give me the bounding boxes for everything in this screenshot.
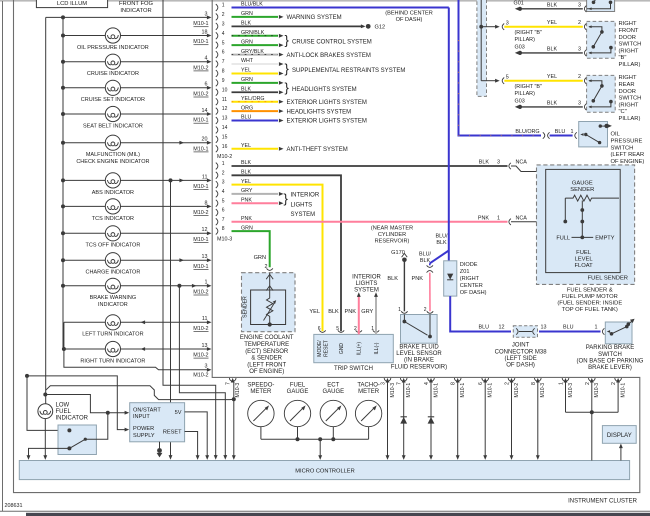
svg-text:FUEL PUMP MOTOR: FUEL PUMP MOTOR <box>562 294 618 300</box>
svg-text:6: 6 <box>205 82 208 88</box>
svg-text:G03: G03 <box>515 45 525 51</box>
svg-text:1: 1 <box>559 382 565 385</box>
svg-text:SWITCH: SWITCH <box>619 96 642 102</box>
cluster boundary wire pin 2 M10-2 <box>505 378 520 460</box>
svg-text:M10-2: M10-2 <box>217 154 232 160</box>
svg-text:1: 1 <box>222 3 225 9</box>
indicator lamp: RIGHT TURN <box>62 341 212 364</box>
label: oil pressure switch <box>611 132 645 165</box>
svg-text:M10-3: M10-3 <box>390 383 396 398</box>
svg-text:PNK: PNK <box>411 276 423 282</box>
svg-text:15: 15 <box>222 134 228 140</box>
svg-text:G12: G12 <box>375 25 386 31</box>
wire: indicator lamp supply rail <box>62 17 64 349</box>
wire: lamp supply to M10-1 pin 3 <box>46 11 212 27</box>
svg-text:M10-3: M10-3 <box>217 237 232 243</box>
brake fluid level sensor pin 1 cup <box>398 307 407 314</box>
indicator lamp: MALFUNCTION (MIL) CHECK ENGINE INDICATOR <box>61 135 212 165</box>
cluster boundary wire pin 3 M10-3 <box>381 378 396 460</box>
svg-text:M10-3: M10-3 <box>594 383 600 398</box>
indicator lamp: BRAKE WARNING INDICATOR <box>61 278 212 308</box>
svg-text:BRAKE FLUID: BRAKE FLUID <box>399 345 439 351</box>
page top border <box>0 0 650 2</box>
svg-text:7: 7 <box>222 59 225 65</box>
svg-text:FLOAT: FLOAT <box>574 263 593 269</box>
svg-text:SWITCH: SWITCH <box>598 352 622 358</box>
svg-text:OIL: OIL <box>611 132 621 138</box>
connector M10-2 pin 1 wire BLU/BLK <box>216 2 449 11</box>
svg-text:M10-1: M10-1 <box>193 21 208 27</box>
svg-text:13: 13 <box>202 254 208 260</box>
connector M10-3 pin 6 <box>216 208 225 216</box>
wire: BLK ground to top door switch <box>522 3 586 13</box>
svg-text:OF ENGINE): OF ENGINE) <box>249 369 284 375</box>
svg-text:1: 1 <box>205 280 208 286</box>
cluster boundary wire pin 4 M10-1 <box>424 378 439 460</box>
svg-text:5V: 5V <box>175 410 182 416</box>
svg-text:1: 1 <box>497 216 500 222</box>
oil pressure switch <box>579 122 612 147</box>
svg-text:CHARGE INDICATOR: CHARGE INDICATOR <box>85 270 140 276</box>
svg-text:(BEHIND CENTER: (BEHIND CENTER <box>385 11 433 17</box>
indicator lamp: CHARGE INDICATOR <box>61 253 212 276</box>
cluster boundary wire pin 6 M10-1 <box>478 378 493 460</box>
svg-text:(ECT) SENSOR: (ECT) SENSOR <box>245 349 289 355</box>
svg-text:POWER: POWER <box>133 426 154 432</box>
svg-text:EXTERIOR LIGHTS SYSTEM: EXTERIOR LIGHTS SYSTEM <box>287 100 367 106</box>
svg-text:OF DASH): OF DASH) <box>506 363 535 369</box>
svg-text:BLK: BLK <box>387 276 398 282</box>
svg-text:CYLINDER: CYLINDER <box>378 232 406 238</box>
svg-text:RIGHT TURN INDICATOR: RIGHT TURN INDICATOR <box>80 358 145 364</box>
svg-text:INSTRUMENT CLUSTER: INSTRUMENT CLUSTER <box>568 499 638 505</box>
svg-text:GAUGE: GAUGE <box>322 389 344 395</box>
svg-text:M10-1: M10-1 <box>193 39 208 45</box>
connector M10-2 pin 8 wire YEL <box>216 68 284 77</box>
svg-text:LEFT TURN INDICATOR: LEFT TURN INDICATOR <box>82 332 143 338</box>
micro controller <box>19 461 629 480</box>
connector M10-2 pin 9 wire GRN <box>216 77 284 86</box>
connector M10-2 label <box>217 154 232 160</box>
label: diode Z01 <box>460 262 487 296</box>
svg-text:METER: METER <box>358 389 380 395</box>
wire: left rail to power supply <box>25 374 129 432</box>
indicator lamp: CRUISE INDICATOR <box>61 54 212 77</box>
connector M10-2 pin 12 wire ORG to headlights <box>216 105 351 115</box>
svg-text:M10-2: M10-2 <box>193 326 208 332</box>
svg-text:M10-1: M10-1 <box>193 264 208 270</box>
svg-text:"C": "C" <box>619 109 627 115</box>
svg-text:(LEFT FRONT: (LEFT FRONT <box>247 362 286 368</box>
svg-text:TCS OFF INDICATOR: TCS OFF INDICATOR <box>86 243 141 249</box>
svg-text:ECT: ECT <box>327 383 339 389</box>
svg-text:Z01: Z01 <box>460 269 470 275</box>
svg-text:G03: G03 <box>515 99 525 105</box>
svg-text:SUPPLEMENTAL RESTRAINTS SYSTEM: SUPPLEMENTAL RESTRAINTS SYSTEM <box>292 68 405 74</box>
svg-text:ILL(+): ILL(+) <box>357 342 363 356</box>
svg-text:3: 3 <box>497 160 500 166</box>
node: supply rail junction <box>61 15 65 19</box>
wire: micro controller to display <box>619 444 623 461</box>
label: BLK wire at trip switch <box>328 309 339 315</box>
label: fuel level float <box>574 250 593 269</box>
wire: BLU from diode Z01 to joint connector M38 <box>450 296 511 331</box>
trip switch pin 1 cup <box>371 326 379 332</box>
connector M10-3 label <box>217 237 232 243</box>
connector M10-2 pin 5 wire GRN <box>216 39 284 48</box>
svg-text:INDICATOR: INDICATOR <box>56 416 89 422</box>
svg-text:13: 13 <box>202 343 208 349</box>
wire: fuel level float wiper <box>580 201 584 240</box>
svg-text:2: 2 <box>424 307 427 313</box>
svg-text:6: 6 <box>318 326 321 332</box>
svg-text:(RIGHT: (RIGHT <box>619 48 639 54</box>
svg-text:"B": "B" <box>619 55 627 61</box>
fuel level float full-empty scale <box>556 236 614 242</box>
svg-text:13: 13 <box>222 116 228 122</box>
svg-text:6: 6 <box>222 208 225 214</box>
svg-text:TOP OF FUEL TANK): TOP OF FUEL TANK) <box>562 307 618 313</box>
svg-text:M10-3: M10-3 <box>568 383 574 398</box>
front fog indicator label <box>119 1 154 14</box>
connector M10-2 pin 7 wire WHT <box>216 58 284 67</box>
indicator lamp: TCS INDICATOR <box>61 199 212 222</box>
svg-text:BRAKE WARNING: BRAKE WARNING <box>90 295 137 301</box>
svg-text:INTERIOR: INTERIOR <box>352 274 381 280</box>
joint connector M38 <box>513 326 537 338</box>
svg-text:BLK: BLK <box>547 3 558 9</box>
svg-text:(NEAR MASTER: (NEAR MASTER <box>371 226 413 232</box>
svg-text:NCA: NCA <box>516 160 528 166</box>
wire: BLU from joint connector M38 to parking brake switch <box>539 325 604 335</box>
svg-text:SPEEDO-: SPEEDO- <box>247 383 274 389</box>
gauge: ECTGAUGE <box>320 383 346 440</box>
svg-text:11: 11 <box>202 316 208 322</box>
wire: ABS tap down to micro controller <box>169 180 173 459</box>
svg-text:OIL PRESSURE INDICATOR: OIL PRESSURE INDICATOR <box>77 45 149 51</box>
svg-text:LOW: LOW <box>56 402 70 408</box>
svg-text:9: 9 <box>222 78 225 84</box>
wire: trip switch ILL(+) PNK to interior lights <box>344 292 360 334</box>
svg-text:20: 20 <box>202 137 208 143</box>
right front door switch <box>587 21 616 58</box>
wire: brake warning tap to micro controller <box>179 286 227 460</box>
svg-text:RESERVOIR): RESERVOIR) <box>375 239 410 245</box>
svg-text:}: } <box>285 61 290 76</box>
gauge: FUELGAUGE <box>284 383 310 440</box>
trip switch unit <box>314 334 394 371</box>
svg-text:PILLAR): PILLAR) <box>619 62 641 68</box>
wire: G170 BLK to brake fluid level sensor pin 1 <box>387 262 404 311</box>
svg-text:M10-1: M10-1 <box>193 237 208 243</box>
svg-text:LIGHTS: LIGHTS <box>291 202 313 208</box>
svg-text:4: 4 <box>222 31 225 37</box>
svg-text:8: 8 <box>205 200 208 206</box>
svg-text:OF DASH): OF DASH) <box>460 290 487 296</box>
trip switch pin 5 cup <box>336 326 344 332</box>
svg-text:BRAKE LEVER): BRAKE LEVER) <box>588 365 632 371</box>
wire: v163 feed to micro controller <box>163 0 218 460</box>
ground G12 <box>361 11 433 31</box>
svg-text:TEMPERATURE: TEMPERATURE <box>244 342 289 348</box>
svg-text:7: 7 <box>397 382 403 385</box>
label: right B pillar / G03 (front) <box>515 30 542 50</box>
svg-text:BLK: BLK <box>420 258 431 264</box>
svg-text:M10-2: M10-2 <box>193 353 208 359</box>
connector M10-3 pin 4 wire GRY <box>216 188 284 197</box>
svg-text:REAR: REAR <box>619 82 635 88</box>
svg-text:OF ENGINE): OF ENGINE) <box>611 159 645 165</box>
svg-text:16: 16 <box>222 144 228 150</box>
svg-text:7: 7 <box>222 217 225 223</box>
svg-text:INPUT: INPUT <box>133 414 150 420</box>
indicator lamp: TCS OFF INDICATOR <box>61 226 212 249</box>
svg-text:(IN BRAKE: (IN BRAKE <box>404 358 434 364</box>
connector M10-2 pin 2 wire GRN to warning system <box>216 11 342 21</box>
wire: left rail continues to low fuel switch <box>27 376 69 431</box>
svg-text:10: 10 <box>222 87 228 93</box>
wire: sender left branch to pink node <box>563 198 567 223</box>
svg-text:2: 2 <box>611 382 617 385</box>
indicator lamp: OIL PRESSURE INDICATOR <box>61 28 212 51</box>
svg-text:3: 3 <box>578 3 581 9</box>
svg-text:SENDER: SENDER <box>570 187 594 193</box>
joint connector strip (top right) <box>477 0 487 96</box>
wire: PNK to brake fluid level sensor pin 2 <box>411 273 430 312</box>
svg-text:M10-1: M10-1 <box>193 184 208 190</box>
svg-text:PNK: PNK <box>344 309 356 315</box>
svg-text:FULL: FULL <box>556 236 570 242</box>
svg-text:BLU/: BLU/ <box>419 252 431 258</box>
connector M10-3 pin 5 wire PNK <box>216 197 284 206</box>
ground: power supply unit <box>157 442 163 458</box>
svg-text:MICRO CONTROLLER: MICRO CONTROLLER <box>295 468 354 474</box>
svg-text:7: 7 <box>226 382 232 385</box>
resistor: gauge sender element <box>565 195 619 201</box>
brake fluid level sensor pin 2 cup <box>424 307 433 314</box>
low fuel sender switch <box>58 425 96 455</box>
svg-text:FUEL SENDER: FUEL SENDER <box>588 275 628 281</box>
right rear door switch <box>587 75 616 112</box>
svg-text:PNK: PNK <box>478 216 489 222</box>
svg-text:M10-1: M10-1 <box>460 383 466 398</box>
wire: BLU/BLK from M10-2 pin 1 down to diode Z01 <box>448 8 450 261</box>
svg-text:GAUGE: GAUGE <box>287 389 309 395</box>
svg-text:12: 12 <box>222 106 228 112</box>
connector M10-2 pin 6 wire GRY/BLK to anti-lock brakes <box>216 49 371 59</box>
svg-text:(RIGHT: (RIGHT <box>619 102 639 108</box>
svg-text:BLK: BLK <box>328 309 339 315</box>
trip switch pin 2 cup <box>354 326 362 332</box>
connector M10-3 pin 7 wire PNK to fuel gauge sender <box>216 216 583 226</box>
svg-text:GRN: GRN <box>254 255 266 261</box>
svg-text:LEVEL: LEVEL <box>575 256 594 262</box>
svg-text:RIGHT: RIGHT <box>619 75 637 81</box>
connector M10-3 pin 1 wire BLK to fuel gauge sender <box>216 160 618 198</box>
connector M10-2 pin 15 <box>216 134 228 142</box>
brake fluid level sensor <box>401 315 438 344</box>
door switch (top, cut off) <box>587 0 615 12</box>
label: engine coolant temperature sensor <box>240 335 294 375</box>
svg-text:DIODE: DIODE <box>460 262 478 268</box>
gauge: TACHO-METER <box>355 383 381 440</box>
display feed wire pin 1 M10-3 <box>559 378 574 412</box>
ground G01 <box>514 1 524 11</box>
fuel sender (dashed enclosure) <box>537 165 635 285</box>
connector M10-2 pin 10 wire BLK <box>216 86 284 95</box>
svg-text:208631: 208631 <box>5 503 23 509</box>
svg-text:TCS INDICATOR: TCS INDICATOR <box>92 216 134 222</box>
svg-text:FRONT FOG: FRONT FOG <box>119 1 154 7</box>
svg-text:M10-2: M10-2 <box>193 65 208 71</box>
svg-text:PRESSURE: PRESSURE <box>611 139 643 145</box>
label: interior lights system (trip) <box>352 274 381 293</box>
wire: low fuel branch rail <box>45 17 47 404</box>
svg-text:12: 12 <box>499 325 505 331</box>
svg-text:HEADLIGHTS SYSTEM: HEADLIGHTS SYSTEM <box>287 109 352 115</box>
connector M10-3 pin 2 wire BLK to trip switch GND <box>216 170 341 332</box>
svg-text:M10-1: M10-1 <box>193 118 208 124</box>
connector M10-2 pin 14 <box>216 125 228 133</box>
svg-text:CRUISE INDICATOR: CRUISE INDICATOR <box>87 71 139 77</box>
svg-text:M10-2: M10-2 <box>193 373 208 379</box>
svg-text:WARNING SYSTEM: WARNING SYSTEM <box>287 15 342 21</box>
ground G170 <box>402 253 408 262</box>
svg-text:RESET: RESET <box>323 340 329 357</box>
cluster boundary wire pin 8 M10-3 <box>531 378 546 460</box>
svg-text:4: 4 <box>222 189 225 195</box>
svg-text:FUEL SENDER &: FUEL SENDER & <box>567 288 613 294</box>
svg-text:M10-1: M10-1 <box>621 383 627 398</box>
svg-text:2: 2 <box>505 382 511 385</box>
label: brake fluid level sensor <box>391 345 447 371</box>
svg-text:BLU: BLU <box>555 129 566 135</box>
svg-text:12: 12 <box>202 227 208 233</box>
svg-text:MODE/: MODE/ <box>317 340 323 357</box>
svg-text:}: } <box>285 80 290 95</box>
parking brake switch <box>605 319 634 344</box>
display feed wire pin 2 M10-3 <box>585 378 600 412</box>
label: cruise control system <box>285 33 372 48</box>
junction: brake warning row tap <box>177 284 181 288</box>
svg-text:FLUID RESERVOIR): FLUID RESERVOIR) <box>391 364 447 370</box>
svg-text:LIGHTS: LIGHTS <box>356 281 378 287</box>
svg-text:BLU: BLU <box>563 325 574 331</box>
wire: 5V output to micro controller <box>185 412 210 460</box>
svg-text:DOOR: DOOR <box>619 89 636 95</box>
junction: ABS row tap <box>169 178 173 182</box>
svg-text:BLK: BLK <box>436 240 447 246</box>
svg-text:YEL: YEL <box>309 309 320 315</box>
svg-text:2: 2 <box>222 12 225 18</box>
ECT thermistor symbol <box>264 290 277 327</box>
label: fuel sender (inner) <box>588 275 628 281</box>
LCD illumination unit <box>36 0 107 8</box>
label: parking brake switch <box>577 345 644 371</box>
wire: turn lamp bus to M10-2 pin 3 <box>64 322 212 378</box>
svg-text:TRIP SWITCH: TRIP SWITCH <box>334 366 373 372</box>
label: right B pillar / G03 (rear) <box>515 84 542 104</box>
svg-text:BLU/: BLU/ <box>436 234 448 240</box>
svg-text:JOINT: JOINT <box>512 343 530 349</box>
svg-text:8: 8 <box>451 382 457 385</box>
svg-text:5: 5 <box>336 326 339 332</box>
svg-text:1: 1 <box>571 129 574 135</box>
svg-text:M10-2: M10-2 <box>193 290 208 296</box>
svg-text:8: 8 <box>222 226 225 232</box>
power supply unit <box>130 403 185 442</box>
svg-text:SUPPLY: SUPPLY <box>133 433 155 439</box>
label: YEL wire at trip switch <box>309 309 320 315</box>
wire: strip branch to right front door switch YEL <box>481 20 586 30</box>
wire: low fuel switch common to micro controller <box>27 448 70 460</box>
svg-text:CRUISE SET INDICATOR: CRUISE SET INDICATOR <box>81 97 145 103</box>
label: right rear door switch <box>619 75 642 122</box>
svg-text:6: 6 <box>478 382 484 385</box>
svg-text:ENGINE COOLANT: ENGINE COOLANT <box>240 335 294 341</box>
svg-text:LEVEL SENSOR: LEVEL SENSOR <box>396 351 442 357</box>
wire: low fuel lamp to on/start input <box>45 395 129 415</box>
connector M10-3 pin 8 wire GRN to ECT sender <box>216 225 270 270</box>
wire: gauge common bus <box>261 437 369 460</box>
svg-text:4: 4 <box>205 56 208 62</box>
svg-text:DISPLAY: DISPLAY <box>607 433 632 439</box>
svg-text:NCA: NCA <box>516 216 528 222</box>
svg-text:SWITCH: SWITCH <box>619 42 642 48</box>
svg-text:SEAT BELT INDICATOR: SEAT BELT INDICATOR <box>83 123 143 129</box>
svg-text:INTERIOR: INTERIOR <box>291 193 320 199</box>
svg-text:GRY: GRY <box>361 309 373 315</box>
wire: strip branch to right rear door switch YEL <box>481 74 586 84</box>
svg-text:1: 1 <box>371 326 374 332</box>
svg-text:FUEL: FUEL <box>56 409 72 415</box>
svg-text:3: 3 <box>578 101 581 107</box>
indicator lamp: LOW FUEL <box>38 393 89 460</box>
svg-text:M10-1: M10-1 <box>488 383 494 398</box>
svg-text:PARKING BRAKE: PARKING BRAKE <box>586 345 635 351</box>
svg-text:(LEFT REAR: (LEFT REAR <box>611 152 645 158</box>
label: joint connector M38 <box>495 343 548 369</box>
svg-text:HEADLIGHTS SYSTEM: HEADLIGHTS SYSTEM <box>292 87 357 93</box>
svg-text:FRONT: FRONT <box>619 28 639 34</box>
label: supplemental restraints system <box>285 61 406 76</box>
svg-text:YEL: YEL <box>547 74 557 80</box>
svg-text:3: 3 <box>381 382 387 385</box>
wire: BLU/BLK branch to inline connector <box>430 234 449 264</box>
wire: display feed bus <box>566 410 619 460</box>
wire: trip switch ILL(-) GRY to interior lights <box>361 292 378 334</box>
svg-text:18: 18 <box>202 29 208 35</box>
svg-text:PILLAR): PILLAR) <box>619 116 641 122</box>
svg-text:M10-2: M10-2 <box>193 92 208 98</box>
wire: rail branch diagonal to MODE line <box>46 386 234 400</box>
svg-text:3: 3 <box>205 11 208 17</box>
svg-text:4: 4 <box>424 382 430 385</box>
svg-text:ILL(-): ILL(-) <box>374 342 380 354</box>
svg-text:EMPTY: EMPTY <box>595 236 615 242</box>
svg-text:2: 2 <box>354 326 357 332</box>
svg-text:8: 8 <box>222 69 225 75</box>
svg-text:INDICATOR: INDICATOR <box>98 302 128 308</box>
trip switch pin 6 cup <box>318 326 326 332</box>
svg-text:GND: GND <box>339 343 345 355</box>
svg-text:11: 11 <box>222 97 227 103</box>
gauge sender inner unit <box>546 169 621 272</box>
svg-text:FUEL: FUEL <box>290 383 306 389</box>
display unit <box>602 426 636 444</box>
indicator lamp: LEFT TURN <box>64 315 212 338</box>
ground G03 (front) <box>515 51 522 55</box>
